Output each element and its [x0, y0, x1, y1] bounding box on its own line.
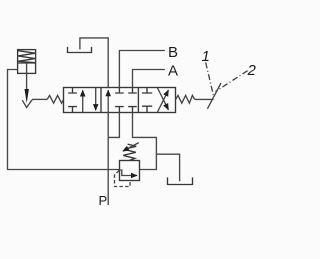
centre box bottom blocked port P	[115, 107, 124, 113]
svg-text:2: 2	[247, 62, 257, 79]
svg-text:B: B	[168, 44, 178, 61]
wire: spring to lever	[195, 98, 214, 100]
pilot spring inside box	[18, 51, 35, 63]
left box down arrow	[95, 88, 97, 111]
centre box bypass arrow	[107, 90, 109, 112]
svg-text:P: P	[99, 193, 108, 208]
wire: U jumper below valve	[108, 113, 119, 138]
left box top blocked port	[68, 88, 77, 94]
wire: tank return elbow	[133, 113, 157, 170]
wire: seat to left spring	[32, 98, 47, 100]
wire: branch to bottom tank	[156, 154, 179, 181]
wire: B line	[119, 51, 164, 88]
right box top blocked port	[142, 88, 152, 94]
position line 1 (dash-dot)	[206, 63, 214, 96]
right box crossed arrow up	[158, 90, 169, 112]
relief adjust arrow	[123, 143, 139, 152]
centre box bottom blocked port T	[128, 107, 137, 113]
wire: A line	[133, 70, 165, 88]
svg-text:A: A	[168, 62, 178, 79]
relief valve spring	[123, 144, 136, 160]
relief pilot line (dashed)	[115, 171, 131, 187]
pilot poppet box (spring chamber)	[18, 50, 36, 74]
relief internal flow arrow	[120, 170, 138, 176]
right centering spring	[176, 95, 195, 103]
directional valve body	[64, 88, 176, 113]
lever stroke	[207, 83, 221, 109]
centre box A blocked port	[128, 88, 137, 94]
poppet stem	[26, 63, 28, 90]
wire: P supply drop	[107, 137, 109, 205]
centre box B blocked port	[115, 88, 124, 94]
svg-text:1: 1	[202, 48, 210, 65]
valve divider right	[137, 88, 139, 113]
right box crossed arrow down	[158, 88, 169, 110]
bottom tank symbol	[168, 177, 193, 184]
valve seat V	[22, 100, 32, 108]
top tank symbol	[68, 47, 92, 53]
position line 2 (dash-dot)	[216, 71, 248, 92]
left box up arrow	[82, 90, 84, 112]
left centering spring	[47, 95, 63, 103]
right box bottom blocked port	[142, 106, 152, 112]
relief valve box	[120, 161, 140, 181]
poppet needle (solid wedge)	[25, 89, 29, 103]
left box bottom blocked port	[68, 107, 77, 113]
wire: box left to loop	[8, 70, 120, 170]
pilot poppet box divider	[18, 62, 36, 64]
wire: bypass to top tank	[80, 38, 108, 88]
valve divider left	[100, 88, 102, 113]
